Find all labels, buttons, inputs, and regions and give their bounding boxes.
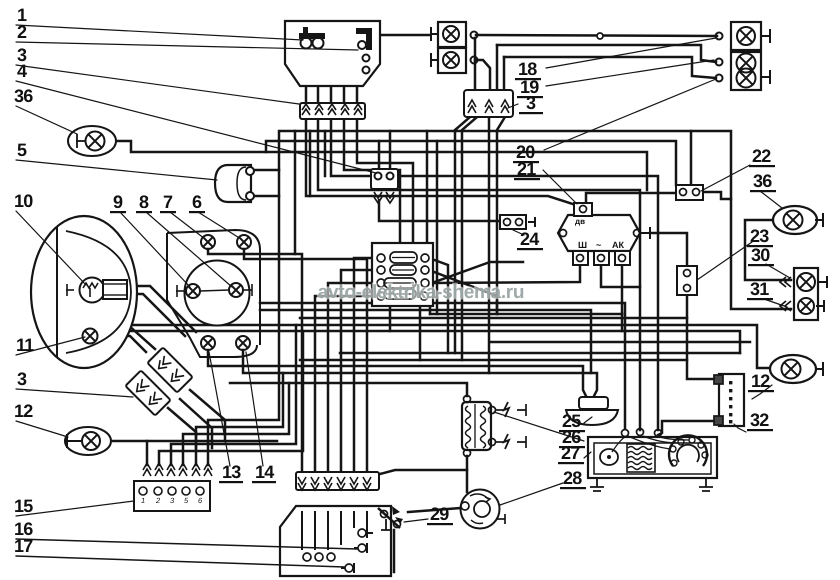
wire bus H8 y366 horn stem1 xyxy=(208,350,587,398)
generator terminals xyxy=(622,430,629,437)
wire coil5 terminal bottom to bundle xyxy=(254,195,279,198)
headlight bulb 10 xyxy=(66,278,127,303)
distributor 28 xyxy=(461,490,506,529)
label 23 xyxy=(747,226,773,247)
panel lamps 7 and 6 top xyxy=(201,235,251,249)
label 7 xyxy=(160,192,176,213)
connector 15 pin numbers xyxy=(141,496,203,505)
svg-text:1: 1 xyxy=(141,496,145,505)
lamp 12 right xyxy=(770,355,823,383)
pilot lamp 11 xyxy=(83,329,98,344)
wire y45 drop to connector xyxy=(496,45,499,90)
wire regulator AK riser xyxy=(621,265,624,314)
wire mesh p5 xyxy=(159,331,303,465)
svg-text:3: 3 xyxy=(526,93,536,113)
label 2 xyxy=(17,22,27,42)
wire harness b3 below connector xyxy=(488,117,491,373)
leader label 30 xyxy=(766,264,790,278)
wire y470 block to coil line xyxy=(380,470,467,474)
wire front lamp1 drop xyxy=(474,38,477,90)
label 36 r xyxy=(750,171,776,192)
wire central switch left out2 xyxy=(341,270,377,472)
leader label 31 xyxy=(764,299,787,307)
label 31 xyxy=(747,279,773,300)
wire switch to front lamp T-bar xyxy=(372,34,430,37)
wire y141 branch xyxy=(266,141,676,185)
leader label 7 xyxy=(170,212,205,239)
svg-text:36: 36 xyxy=(14,86,33,106)
wire regulator right to switch23 xyxy=(650,233,687,266)
wire block4 up b xyxy=(389,131,392,171)
label 1 xyxy=(17,5,27,25)
wire filler vertical 295 xyxy=(294,131,297,254)
wire block3 exit e1 xyxy=(190,390,225,441)
switch 24 xyxy=(500,215,535,229)
svg-text:32: 32 xyxy=(750,410,769,430)
svg-text:27: 27 xyxy=(561,443,580,463)
leader label 28 xyxy=(500,483,563,505)
label 6 xyxy=(189,192,205,213)
leader label 23 xyxy=(697,242,752,280)
svg-text:13: 13 xyxy=(222,462,241,482)
label 16 xyxy=(14,519,33,539)
wire bus H7 y360 xyxy=(300,359,687,362)
wire bus y131 main rectangle top xyxy=(281,131,791,309)
svg-text:2: 2 xyxy=(17,22,27,42)
wire pilot lamp wire xyxy=(97,336,146,352)
label 12 r xyxy=(748,371,774,392)
wire bus y303 to generator area xyxy=(260,303,625,428)
wire lamp36 right feed xyxy=(745,220,791,280)
wire switch circuit 1 drop xyxy=(305,47,308,103)
wire drop x691 to switch22 xyxy=(690,131,693,185)
leader label 12 left xyxy=(16,421,68,437)
svg-text:14: 14 xyxy=(255,462,274,482)
lamp 36 left xyxy=(68,126,116,156)
connector 15 xyxy=(134,463,212,511)
label 26 xyxy=(559,427,585,448)
generator 27 assembly xyxy=(588,429,717,492)
connector block bottom center xyxy=(296,472,379,490)
wire 17 long xyxy=(16,556,345,567)
wire filler vertical 310 xyxy=(309,131,312,196)
leader label 2 xyxy=(16,42,358,50)
svg-text:10: 10 xyxy=(14,191,33,211)
diagonal connector 3 block B xyxy=(125,370,170,415)
svg-text:21: 21 xyxy=(517,159,536,179)
wire coil bottom to distributor xyxy=(466,456,469,492)
leader label 15 xyxy=(16,501,134,516)
leader label 19 xyxy=(546,60,714,86)
wire elbow 344 to central switch xyxy=(344,119,400,243)
battery 32 xyxy=(714,374,744,426)
label 15 xyxy=(14,496,33,516)
wire block4 up a xyxy=(378,141,381,171)
label 17 xyxy=(14,536,33,556)
wire y57 to rear lamp bottom xyxy=(504,57,716,78)
voltage regulator 21 xyxy=(558,203,650,265)
headlight shell xyxy=(31,216,137,368)
svg-text:avto-elektrika-shema.ru: avto-elektrika-shema.ru xyxy=(318,282,524,303)
leader label 4 xyxy=(16,81,376,173)
label 25 xyxy=(559,411,585,432)
label 11 xyxy=(16,335,34,355)
leader label 24 xyxy=(513,230,524,235)
svg-text:12: 12 xyxy=(14,401,33,421)
wire switch29 down xyxy=(393,530,396,572)
wire block3 exit e2 xyxy=(180,399,212,448)
wire block3 exit e3 xyxy=(168,408,196,448)
wire mesh p2 xyxy=(196,373,283,465)
wire harness b2 below connector xyxy=(462,117,477,360)
svg-text:2: 2 xyxy=(155,496,161,505)
label 3 mid xyxy=(17,369,27,389)
label 19 xyxy=(517,77,543,98)
svg-text:Ш: Ш xyxy=(578,240,587,250)
wire bus H6 y342 xyxy=(490,341,750,344)
label 9 xyxy=(110,192,126,213)
connector block 3 below front lamps xyxy=(464,90,513,117)
wire headlight diag t3 xyxy=(118,316,155,349)
leader label 18 xyxy=(546,38,716,68)
rear lamps right pair xyxy=(716,22,771,90)
label 27 xyxy=(558,443,584,464)
wire block4 down to switch24 xyxy=(379,200,500,221)
spark gap bottom xyxy=(496,441,504,443)
wire speedo lamp right out xyxy=(244,249,367,472)
leader label 3 mid-left xyxy=(16,389,133,397)
leader label 20 xyxy=(544,79,716,150)
leader label 3 right xyxy=(508,104,518,108)
rear contacts xyxy=(358,529,366,537)
label 36 xyxy=(14,86,33,106)
wire harness b4 below connector xyxy=(497,117,505,314)
wire y45 to rear lamp mid xyxy=(497,45,716,62)
wire bus H5 y353 xyxy=(340,352,740,355)
leader label 13 xyxy=(209,352,230,466)
wire bus H10 y383 to coil top xyxy=(230,383,467,396)
wire bus y310 xyxy=(260,310,591,373)
leader label 3 top xyxy=(16,65,299,104)
panel lamps 13 14 bottom xyxy=(201,336,250,350)
svg-text:24: 24 xyxy=(520,229,539,249)
wire headlight diag t2 xyxy=(127,294,185,336)
label 3 xyxy=(17,45,27,65)
wire bus H3 y325 to lamp12 xyxy=(127,325,770,368)
label 20 xyxy=(513,142,539,163)
central switch xyxy=(372,243,433,306)
leader label 36 right xyxy=(760,191,782,208)
connector block 3 under switch xyxy=(300,103,365,119)
wire switch contact b xyxy=(331,70,363,103)
wire switch22 left to regulator top xyxy=(586,193,676,203)
rear lamps 30 31 box xyxy=(780,268,827,320)
wire filler vertical 325 xyxy=(324,131,327,176)
wire switch out r2 cross down xyxy=(429,270,497,314)
svg-text:дв: дв xyxy=(575,217,585,226)
wire bus H9 y373 horn stem2 xyxy=(243,350,597,398)
junction dot on y35 wire xyxy=(597,33,603,39)
label 29 xyxy=(427,504,453,525)
wire speedo lamp left out xyxy=(208,249,302,472)
wire battery minus to generator xyxy=(658,421,714,435)
leader label 9 xyxy=(120,212,190,287)
label 24 xyxy=(517,229,543,250)
wire lamp12-left bus y441 xyxy=(113,440,277,443)
leader label 5 xyxy=(16,160,217,180)
svg-text:15: 15 xyxy=(14,496,33,516)
svg-text:22: 22 xyxy=(752,146,771,166)
label 21 xyxy=(514,159,540,180)
wire switch23 to battery plus xyxy=(687,295,716,379)
leader label 32 xyxy=(734,424,746,432)
brake switch 29 xyxy=(378,506,403,530)
label 5 xyxy=(17,140,27,160)
leader label 10 xyxy=(16,211,86,285)
leader label 26 xyxy=(494,412,584,441)
wire regulator tilde drop xyxy=(601,265,640,287)
svg-text:8: 8 xyxy=(139,192,149,212)
wire mesh p3 xyxy=(183,383,289,465)
wire lamp36-left to bus y141 xyxy=(114,141,647,190)
svg-text:23: 23 xyxy=(750,226,769,246)
label 13 xyxy=(219,462,243,483)
label 3 r xyxy=(519,93,543,114)
leader label 29 xyxy=(404,519,428,522)
speedometer dial lamps 9 xyxy=(176,283,252,298)
leader label 14 xyxy=(246,352,263,466)
switch 23 xyxy=(677,266,697,295)
wire switch circuit 2 drop xyxy=(317,47,320,103)
label 8 xyxy=(136,192,152,213)
svg-text:3: 3 xyxy=(17,369,27,389)
svg-text:36: 36 xyxy=(753,171,772,191)
wire bus y318 xyxy=(300,317,687,320)
svg-text:12: 12 xyxy=(751,371,770,391)
wire switch bottom drop a xyxy=(389,306,392,331)
svg-text:4: 4 xyxy=(17,61,27,81)
leader label 6 xyxy=(198,212,241,239)
connector 4 block xyxy=(371,169,398,203)
wire mesh p1 xyxy=(208,131,279,465)
wire central switch left out1 xyxy=(354,258,377,472)
diagonal connector 3 block A xyxy=(147,347,192,392)
label 18 xyxy=(515,59,541,80)
leader label 27 xyxy=(584,452,591,458)
wire bus H4 y331 xyxy=(130,331,740,353)
svg-text:9: 9 xyxy=(113,192,123,212)
label 32 xyxy=(747,410,773,431)
svg-text:17: 17 xyxy=(14,536,33,556)
wire switch contact a xyxy=(344,58,363,103)
label 28 xyxy=(560,468,586,489)
wire AK extension down xyxy=(621,314,624,331)
wire elbow 331 to generator via x658 xyxy=(331,119,658,430)
wire 16 long xyxy=(16,539,357,549)
svg-text:5: 5 xyxy=(17,140,27,160)
speedometer housing xyxy=(167,230,260,357)
leader label 21 xyxy=(543,170,577,204)
ground left xyxy=(590,478,604,491)
leader label 12 right xyxy=(752,385,772,399)
wire front lamp2 drop xyxy=(475,60,490,90)
svg-text:30: 30 xyxy=(751,245,770,265)
leader label 8 xyxy=(146,212,232,287)
wire elbow 306 to regulator top xyxy=(306,119,576,205)
wire switch bottom drop b xyxy=(419,306,422,360)
wire front lamp top to rear lamp top y35 xyxy=(476,35,717,36)
svg-text:АК: АК xyxy=(612,240,624,250)
switch 22 xyxy=(676,185,703,200)
leader label 1 xyxy=(16,25,303,40)
label 4 xyxy=(17,61,27,81)
svg-text:29: 29 xyxy=(430,504,449,524)
ignition coil 26 xyxy=(462,396,526,457)
label 10 xyxy=(14,191,33,211)
svg-text:18: 18 xyxy=(518,59,537,79)
lamp 36 right xyxy=(773,206,823,234)
label 22 xyxy=(749,146,775,167)
wire y131 drop to central switch xyxy=(426,131,429,243)
front turn lamps left pair xyxy=(430,22,478,73)
wire y57 drop to connector xyxy=(503,57,506,90)
horn 25 xyxy=(566,397,618,425)
ignition coil 5 xyxy=(215,165,254,202)
svg-text:6: 6 xyxy=(192,192,202,212)
spark gap top xyxy=(496,409,504,411)
svg-text:31: 31 xyxy=(750,279,769,299)
label 14 xyxy=(252,462,276,483)
wire headlight diag t1 xyxy=(127,286,196,332)
svg-text:7: 7 xyxy=(163,192,173,212)
wire switch out r3 cross up xyxy=(429,262,523,284)
leader label 11 xyxy=(16,337,85,355)
label 12 xyxy=(14,401,33,421)
lamp 12 left xyxy=(65,427,111,455)
wire switch22 to x731 xyxy=(703,192,731,199)
wire lamp12 drop to connector15 xyxy=(146,441,149,465)
leader label 36 left xyxy=(16,106,77,134)
label 30 xyxy=(748,245,774,266)
svg-text:11: 11 xyxy=(16,335,34,355)
wire central switch out to H1 xyxy=(425,296,430,314)
leader label 25 xyxy=(584,417,592,423)
wire elbow 357 to central switch xyxy=(357,119,413,243)
svg-text:~: ~ xyxy=(596,240,601,250)
wire bus H1 y314 xyxy=(430,313,622,316)
wire central switch left out4 xyxy=(315,296,377,472)
wire distributor left to switch29 xyxy=(408,508,461,512)
wire mesh p4 xyxy=(171,325,296,465)
wire harness b1 below connector xyxy=(455,117,470,353)
wire coil5 terminal top to bundle xyxy=(254,169,279,172)
tail light housing trapezoid xyxy=(280,506,391,576)
ground right xyxy=(699,478,713,491)
wire switch out r1 to H5 xyxy=(429,258,448,353)
leader label 22 xyxy=(701,165,750,191)
wire switch contact bar drop xyxy=(356,50,359,103)
svg-text:28: 28 xyxy=(563,468,582,488)
wire regulator Sh to central switch xyxy=(433,265,580,283)
wire central switch left out3 xyxy=(328,283,377,472)
handlebar switch housing xyxy=(285,21,380,86)
wire filler vertical 437 xyxy=(436,141,439,314)
wire elbow 318 to generator via x640 xyxy=(318,119,640,430)
stator horseshoe xyxy=(669,435,707,466)
